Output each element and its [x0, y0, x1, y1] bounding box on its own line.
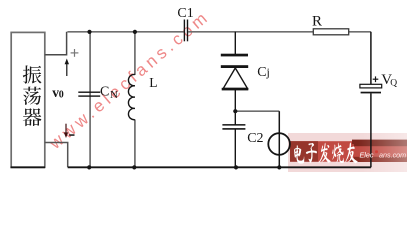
svg-text:C1: C1	[177, 6, 193, 21]
svg-text:L: L	[149, 75, 157, 90]
svg-text:R: R	[312, 14, 322, 30]
svg-text:N: N	[110, 89, 118, 101]
svg-text:Q: Q	[390, 78, 397, 88]
svg-text:C: C	[100, 84, 109, 99]
svg-text:0: 0	[59, 89, 64, 100]
svg-text:j: j	[266, 65, 270, 79]
svg-text:C2: C2	[247, 131, 263, 146]
svg-text:Elec: Elec	[360, 151, 374, 160]
svg-text:C: C	[257, 65, 266, 80]
svg-text:ans.com: ans.com	[379, 151, 406, 160]
